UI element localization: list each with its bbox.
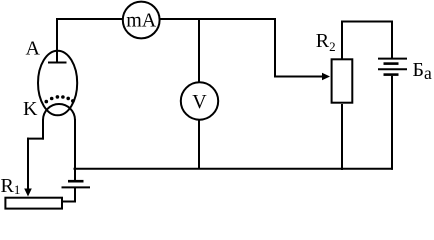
- wire: anode top lead: [56, 19, 58, 63]
- filament battery plate long: [62, 186, 91, 188]
- svg-text:V: V: [192, 91, 207, 113]
- wire: cathode leg jog: [27, 138, 44, 140]
- svg-text:K: K: [23, 98, 38, 120]
- wire: R2 top lead: [341, 22, 343, 60]
- wire: vertical down to R2 wiper: [274, 18, 276, 77]
- filament heater dots: [45, 95, 75, 103]
- wire: voltmeter bottom lead: [198, 120, 200, 169]
- svg-text:A: A: [26, 38, 41, 60]
- battery Ba plate 2 (short): [384, 62, 399, 65]
- svg-text:mA: mA: [126, 10, 157, 32]
- anode plate inside tube: [48, 62, 67, 64]
- wire: wiper arrow into R2: [274, 76, 323, 78]
- voltmeter V: [181, 82, 218, 119]
- wire: battery bottom lead: [391, 76, 393, 170]
- wire: R2 top to battery top: [341, 21, 392, 23]
- svg-text:R1: R1: [1, 175, 21, 197]
- wire: rheostat R1 wiper stem: [27, 138, 29, 189]
- svg-text:R2: R2: [316, 30, 336, 54]
- wire: cathode right leg: [74, 119, 76, 180]
- wire: R2 bottom lead: [341, 104, 343, 170]
- filament battery plate short: [68, 180, 84, 183]
- wire: cathode left leg: [42, 119, 44, 140]
- wire: ammeter to top-right corner: [160, 18, 276, 20]
- vacuum diode tube envelope: [38, 51, 77, 116]
- wire: top wire anode to ammeter: [56, 18, 123, 20]
- ammeter mA: [123, 2, 160, 39]
- wire: filament battery to R1 right end: [62, 187, 75, 201]
- battery Ba plate 1 (long): [378, 58, 407, 60]
- battery Ba plate 4 (short): [384, 73, 399, 76]
- svg-text:Ба: Ба: [413, 59, 432, 83]
- wire: bottom rail: [74, 168, 394, 170]
- wire: voltmeter top lead: [198, 18, 200, 82]
- rheostat R1 body: [5, 198, 62, 209]
- battery Ba plate 3 (long): [378, 68, 407, 70]
- cathode dome arc inside tube: [43, 104, 75, 120]
- potentiometer R2 body: [332, 59, 353, 102]
- arrowhead of R2 wiper: [322, 73, 330, 81]
- wire: battery top lead: [391, 21, 393, 59]
- arrowhead of R1 wiper: [24, 189, 32, 197]
